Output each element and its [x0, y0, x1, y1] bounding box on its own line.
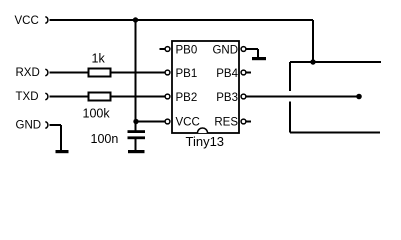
svg-text:VCC: VCC: [15, 15, 39, 27]
port symbol RXD: [45, 69, 48, 76]
pin stub PB4: [246, 72, 251, 74]
resistor R1 1k body: [89, 69, 111, 77]
svg-text:PB3: PB3: [216, 92, 238, 104]
capacitor C1 top plate: [128, 130, 146, 133]
wire vertical VCC branch down to IC VCC pin: [135, 20, 137, 122]
IC notch bottom center: [198, 128, 208, 133]
capacitor C1 top lead: [135, 122, 137, 132]
pin stub RES: [246, 121, 251, 123]
svg-text:100k: 100k: [83, 107, 111, 121]
pin stub PB0: [160, 48, 166, 50]
junction dot right connector top: [310, 59, 315, 64]
wire vertical VCC rail to right connector: [312, 20, 314, 62]
pin circle VCC: [165, 119, 170, 124]
svg-text:1k: 1k: [92, 52, 106, 66]
wire connector bottom horizontal: [290, 132, 380, 134]
wire VCC rail top: [50, 19, 314, 21]
svg-text:PB0: PB0: [176, 45, 198, 57]
wire GND pin horizontal: [246, 48, 258, 50]
wire connector left vertical lower: [289, 102, 291, 133]
ground symbol at IC GND pin: [252, 57, 266, 60]
IC U1 Tiny13 body: [172, 41, 239, 133]
wire GND label vertical: [60, 125, 62, 150]
resistor R2 100k body: [89, 93, 111, 101]
wire RXD to R1: [50, 72, 89, 74]
pin circle PB3: [241, 94, 246, 99]
wire TXD to R2: [50, 96, 89, 98]
svg-text:PB1: PB1: [176, 68, 198, 80]
pin circle RES: [241, 119, 246, 124]
capacitor C1 bottom lead: [135, 139, 137, 150]
svg-text:RES: RES: [214, 117, 238, 129]
port symbol VCC: [45, 17, 48, 24]
capacitor C1 bottom plate: [128, 136, 146, 139]
svg-text:VCC: VCC: [176, 117, 200, 129]
wire R1 to pin PB1: [111, 72, 165, 74]
svg-text:TXD: TXD: [16, 91, 39, 103]
wire connector left vertical upper: [289, 62, 291, 91]
ground symbol left: [56, 150, 69, 153]
wire GND pin vertical: [257, 49, 259, 57]
svg-text:PB4: PB4: [216, 68, 238, 80]
junction dot VCC pin / capacitor: [133, 119, 138, 124]
svg-text:PB2: PB2: [176, 92, 198, 104]
pin circle PB4: [241, 70, 246, 75]
svg-text:100n: 100n: [91, 132, 119, 146]
wire R2 to pin PB2: [111, 96, 165, 98]
ground symbol under capacitor: [128, 150, 145, 153]
pin circle PB2: [165, 94, 170, 99]
junction dot end of PB3 wire: [356, 94, 362, 100]
port symbol GND: [45, 122, 48, 129]
wire GND label horizontal: [50, 124, 62, 126]
svg-text:Tiny13: Tiny13: [186, 134, 225, 149]
port symbol TXD: [45, 93, 48, 100]
junction dot VCC rail / decoupling branch: [133, 17, 138, 22]
wire PB3 to right: [246, 96, 359, 98]
svg-text:GND: GND: [212, 45, 238, 57]
pin circle GND right: [241, 47, 246, 52]
svg-text:RXD: RXD: [16, 67, 40, 79]
wire connector top horizontal: [290, 61, 381, 63]
wire to IC VCC pin: [136, 121, 165, 123]
svg-text:GND: GND: [16, 120, 42, 132]
pin circle PB1: [165, 70, 170, 75]
pin circle PB0: [165, 47, 170, 52]
